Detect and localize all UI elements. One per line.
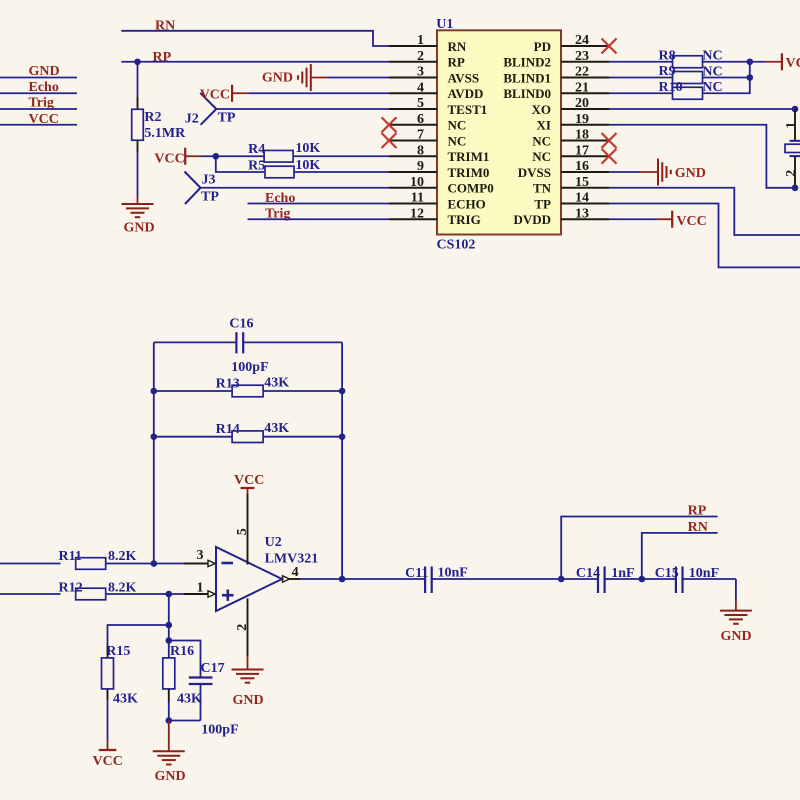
- power GND at pin16: [640, 159, 706, 186]
- node R13 right: [339, 388, 346, 395]
- svg-text:43K: 43K: [113, 691, 138, 706]
- op-amp U2 LMV321: [216, 535, 318, 611]
- svg-text:17: 17: [575, 143, 589, 158]
- pin 22 BLIND1: [503, 65, 609, 86]
- node XO junction: [792, 106, 799, 113]
- svg-text:VCC: VCC: [234, 473, 264, 488]
- svg-text:COMP0: COMP0: [448, 181, 494, 196]
- wire pin19 XI to crystal: [609, 125, 795, 188]
- svg-text:R10: R10: [659, 80, 683, 95]
- net label RP: [153, 50, 172, 65]
- node R15 branch: [166, 622, 173, 629]
- svg-text:8: 8: [417, 143, 424, 158]
- svg-text:22: 22: [575, 65, 589, 80]
- wire output to bus: [300, 578, 342, 580]
- wire R9 to junction: [703, 77, 750, 79]
- svg-text:XO: XO: [532, 102, 552, 117]
- pin 16 DVSS: [518, 159, 609, 180]
- net label RN bottom: [688, 520, 708, 535]
- svg-text:AVDD: AVDD: [448, 86, 484, 101]
- svg-text:R5: R5: [248, 158, 265, 173]
- pin 8 TRIM1: [389, 143, 489, 164]
- pin 3 op-amp: [184, 548, 215, 567]
- svg-text:RP: RP: [448, 55, 465, 70]
- svg-text:2: 2: [235, 624, 250, 631]
- node R9 junction: [747, 74, 754, 81]
- resistor R5: [248, 158, 320, 178]
- wire RN vertical: [642, 533, 718, 579]
- svg-text:3: 3: [197, 548, 204, 563]
- svg-text:RP: RP: [153, 50, 172, 65]
- svg-text:13: 13: [575, 206, 589, 221]
- pin 2 RP: [389, 49, 465, 70]
- wire pin13 DVDD to VCC: [609, 218, 657, 220]
- svg-text:20: 20: [575, 96, 589, 111]
- wire pin16 DVSS to GND: [609, 171, 640, 173]
- node RP junction: [134, 58, 141, 65]
- power GND at U1 pin 3: [262, 64, 327, 91]
- net label GND (left port): [29, 64, 60, 79]
- node output junction: [339, 576, 346, 583]
- node R14 left: [151, 433, 158, 440]
- node R13 left: [151, 388, 158, 395]
- wire Trig to U1 pin 12: [248, 218, 390, 220]
- resistor R13: [154, 375, 342, 397]
- wire RP vertical: [561, 517, 717, 580]
- svg-text:DVSS: DVSS: [518, 165, 551, 180]
- wire R12 node down to R15/R16: [168, 594, 170, 658]
- no-connect X at pin 7: [382, 133, 397, 148]
- svg-text:TP: TP: [201, 189, 219, 204]
- power VCC at pin13: [657, 211, 707, 229]
- svg-text:GND: GND: [675, 166, 706, 181]
- pin 1 RN: [389, 33, 467, 54]
- svg-text:1: 1: [417, 33, 424, 48]
- svg-text:TEST1: TEST1: [448, 102, 488, 117]
- node XI junction: [792, 185, 799, 192]
- net label RP bottom: [688, 504, 707, 519]
- svg-text:CS102: CS102: [437, 238, 476, 253]
- svg-text:4: 4: [292, 565, 299, 580]
- no-connect X at pin 18: [602, 133, 617, 148]
- svg-text:5: 5: [235, 528, 250, 535]
- power VCC at R4/R5: [154, 148, 200, 167]
- wire pin23 to R8: [609, 61, 673, 63]
- svg-text:TN: TN: [533, 181, 552, 196]
- svg-text:TRIM1: TRIM1: [448, 149, 490, 164]
- capacitor C17: [189, 661, 239, 738]
- resistor R14: [154, 421, 342, 442]
- pin 21 BLIND0: [503, 80, 609, 101]
- resistor R9: [659, 64, 723, 83]
- pin 20 XO: [532, 96, 610, 117]
- svg-text:24: 24: [575, 33, 589, 48]
- node R8 junction: [747, 58, 754, 65]
- svg-text:2: 2: [784, 170, 799, 177]
- svg-text:8.2K: 8.2K: [108, 549, 137, 564]
- pin 9 TRIM0: [389, 159, 489, 180]
- svg-text:BLIND0: BLIND0: [503, 86, 551, 101]
- svg-text:8.2K: 8.2K: [108, 580, 137, 595]
- svg-text:6: 6: [417, 112, 424, 127]
- pin 2 op-amp power: [235, 598, 250, 656]
- op-amp U1 CS102 body: [436, 17, 561, 253]
- svg-text:TRIM0: TRIM0: [448, 165, 490, 180]
- svg-text:1nF: 1nF: [611, 566, 634, 581]
- svg-text:10: 10: [410, 175, 424, 190]
- svg-text:GND: GND: [123, 221, 154, 236]
- svg-text:NC: NC: [532, 133, 551, 148]
- power GND at op-amp pin 2: [232, 656, 264, 708]
- pin 15 TN: [533, 175, 609, 196]
- svg-text:RN: RN: [448, 39, 467, 54]
- svg-text:VCC: VCC: [786, 56, 800, 71]
- pin 5 op-amp power: [235, 494, 250, 565]
- wire RN to U1 pin 1: [121, 31, 389, 46]
- svg-text:R15: R15: [106, 644, 130, 659]
- no-connect X at pin 24: [602, 39, 617, 54]
- wire C15 to GND: [735, 579, 737, 600]
- pin 7 NC: [389, 128, 466, 149]
- svg-text:5: 5: [417, 96, 424, 111]
- svg-text:U2: U2: [265, 535, 282, 550]
- pin 18 NC: [532, 128, 609, 149]
- wire RP to U1 pin 2: [121, 61, 389, 63]
- resistor R2: [132, 62, 186, 196]
- resistor R12: [0, 580, 137, 600]
- wire J3 to U1 pin 10: [201, 187, 390, 189]
- no-connect X at pin 17: [602, 149, 617, 164]
- wire Echo to U1 pin 11: [248, 203, 390, 205]
- resistor R8: [659, 48, 723, 67]
- svg-text:GND: GND: [232, 693, 263, 708]
- wire left bus: [153, 342, 155, 563]
- wire Trig stub: [0, 108, 77, 110]
- node inverting input junction: [151, 560, 158, 567]
- net label Echo (left port): [29, 80, 59, 95]
- net label Trig at U1 pin 12: [265, 206, 290, 221]
- pin 4 op-amp output: [283, 565, 301, 582]
- resistor R16: [163, 644, 202, 721]
- svg-text:C11: C11: [405, 566, 428, 581]
- node R16 bottom junction: [166, 717, 173, 724]
- power VCC at R8 net: [765, 53, 800, 71]
- pin 23 BLIND2: [503, 49, 609, 70]
- power GND at C15: [720, 600, 752, 644]
- svg-text:10nF: 10nF: [689, 566, 719, 581]
- svg-text:10K: 10K: [295, 158, 320, 173]
- wire R12 to op-amp pin 1: [106, 593, 197, 595]
- svg-text:U1: U1: [436, 17, 453, 32]
- svg-text:4: 4: [417, 80, 424, 95]
- svg-text:BLIND1: BLIND1: [503, 70, 551, 85]
- power VCC below R15: [93, 740, 123, 769]
- svg-text:GND: GND: [720, 629, 751, 644]
- svg-text:AVSS: AVSS: [448, 70, 480, 85]
- svg-text:BLIND2: BLIND2: [503, 55, 551, 70]
- svg-text:VCC: VCC: [200, 87, 230, 102]
- svg-text:VCC: VCC: [93, 754, 123, 769]
- pin 10 COMP0: [389, 175, 494, 196]
- node RP junction bottom: [558, 576, 565, 583]
- wire junction down to R5: [216, 156, 265, 172]
- svg-text:C15: C15: [655, 566, 679, 581]
- wire C17 bottom to R16 bottom: [169, 720, 201, 722]
- svg-text:VCC: VCC: [154, 152, 184, 167]
- svg-text:14: 14: [575, 191, 589, 206]
- wire branch to R15: [108, 625, 169, 645]
- pin 24 PD: [534, 33, 609, 54]
- svg-text:R14: R14: [216, 422, 240, 437]
- crystal Y1: [784, 109, 800, 188]
- pin 14 TP: [534, 191, 609, 212]
- power VCC at op-amp pin 5: [234, 473, 264, 494]
- pin 6 NC: [389, 112, 466, 133]
- capacitor C15: [642, 566, 736, 593]
- node R14 right: [339, 433, 346, 440]
- svg-text:1: 1: [197, 581, 204, 596]
- resistor R4: [248, 141, 320, 162]
- node non-inverting junction: [166, 591, 173, 598]
- svg-text:ECHO: ECHO: [448, 196, 486, 211]
- pin 3 AVSS: [389, 65, 479, 86]
- node C17 branch: [166, 637, 173, 644]
- svg-text:100pF: 100pF: [201, 723, 238, 738]
- svg-text:VCC: VCC: [676, 214, 706, 229]
- svg-text:J3: J3: [202, 173, 216, 188]
- node RN junction bottom: [639, 576, 646, 583]
- pin 11 ECHO: [389, 191, 486, 212]
- svg-text:PD: PD: [534, 39, 551, 54]
- wire R5 to U1 pin 9: [294, 171, 389, 173]
- svg-text:NC: NC: [448, 133, 467, 148]
- svg-text:21: 21: [575, 80, 589, 95]
- svg-text:R11: R11: [59, 549, 82, 564]
- wire VCC stub: [0, 124, 77, 126]
- svg-text:100pF: 100pF: [231, 360, 268, 375]
- svg-text:NC: NC: [532, 149, 551, 164]
- resistor R11: [0, 549, 137, 570]
- pin 19 XI: [537, 112, 609, 133]
- svg-text:18: 18: [575, 128, 589, 143]
- svg-text:R13: R13: [216, 377, 240, 392]
- wire R4 to U1 pin 8: [293, 155, 389, 157]
- svg-text:43K: 43K: [177, 691, 202, 706]
- svg-text:16: 16: [575, 159, 589, 174]
- node R4/R5 junction: [213, 153, 220, 160]
- svg-text:12: 12: [410, 206, 424, 221]
- wire GND to U1 pin 3: [327, 77, 389, 79]
- svg-text:R16: R16: [170, 644, 194, 659]
- wire pin20 XO to crystal: [609, 108, 795, 110]
- pin 12 TRIG: [389, 206, 481, 227]
- net label RN: [155, 19, 175, 34]
- svg-text:TP: TP: [534, 196, 551, 211]
- svg-text:7: 7: [417, 128, 424, 143]
- svg-text:R8: R8: [659, 48, 676, 63]
- power VCC at U1 pin 4: [200, 85, 249, 103]
- svg-text:J2: J2: [185, 111, 199, 126]
- svg-text:23: 23: [575, 49, 589, 64]
- pin 5 TEST1: [389, 96, 487, 117]
- svg-text:GND: GND: [154, 769, 185, 784]
- svg-text:C16: C16: [229, 317, 253, 332]
- svg-text:R2: R2: [144, 110, 161, 125]
- capacitor C11: [342, 566, 561, 594]
- svg-text:10nF: 10nF: [438, 566, 468, 581]
- svg-text:43K: 43K: [264, 421, 289, 436]
- svg-text:15: 15: [575, 175, 589, 190]
- wire R8 to VCC net: [703, 61, 766, 63]
- resistor R15: [102, 644, 139, 740]
- ground GND below R2: [122, 196, 155, 236]
- wire J2 to U1 pin 5: [216, 108, 389, 110]
- pin 4 AVDD: [389, 80, 483, 101]
- svg-text:NC: NC: [448, 118, 467, 133]
- svg-text:9: 9: [417, 159, 424, 174]
- pin 13 DVDD: [513, 206, 609, 227]
- svg-text:TP: TP: [218, 111, 236, 126]
- svg-text:TRIG: TRIG: [448, 212, 481, 227]
- wire VCC to R4: [201, 155, 265, 157]
- wire branch to C17: [169, 641, 201, 678]
- svg-text:R9: R9: [659, 64, 676, 79]
- testpoint J3: [185, 172, 220, 205]
- wire pin21 to R10: [609, 92, 673, 94]
- capacitor C14: [561, 566, 642, 593]
- pin 17 NC: [532, 143, 609, 164]
- wire Echo stub: [0, 92, 77, 94]
- net label Trig (left port): [29, 96, 54, 111]
- svg-text:C14: C14: [576, 566, 600, 581]
- no-connect X at pin 6: [382, 117, 397, 132]
- wire GND stub: [0, 77, 77, 79]
- svg-text:XI: XI: [537, 118, 551, 133]
- wire VCC to U1 pin 4: [248, 92, 389, 94]
- power GND below R16: [153, 721, 186, 785]
- svg-text:C17: C17: [201, 661, 225, 676]
- svg-text:11: 11: [411, 191, 424, 206]
- wire pin15 TN to right edge: [609, 188, 800, 235]
- wire R10 to junction: [703, 62, 750, 94]
- svg-text:43K: 43K: [264, 375, 289, 390]
- svg-text:R12: R12: [59, 580, 83, 595]
- wire R11 to op-amp pin 3: [106, 563, 197, 565]
- svg-text:R4: R4: [248, 142, 265, 157]
- net label VCC (left port): [29, 112, 59, 127]
- pin 1 op-amp: [184, 581, 215, 598]
- svg-text:GND: GND: [262, 71, 293, 86]
- svg-text:3: 3: [417, 65, 424, 80]
- svg-text:1: 1: [784, 122, 799, 129]
- wire right bus: [341, 342, 343, 579]
- svg-text:5.1MR: 5.1MR: [144, 126, 186, 141]
- svg-text:2: 2: [417, 49, 424, 64]
- testpoint J2: [185, 93, 236, 126]
- svg-text:19: 19: [575, 112, 589, 127]
- svg-text:10K: 10K: [295, 141, 320, 156]
- capacitor C16: [154, 317, 342, 375]
- wire pin22 to R9: [609, 77, 673, 79]
- net label Echo at U1 pin 11: [265, 191, 295, 206]
- wire pin14 TP to right edge: [609, 204, 800, 268]
- resistor R10: [659, 80, 723, 99]
- svg-text:DVDD: DVDD: [513, 212, 551, 227]
